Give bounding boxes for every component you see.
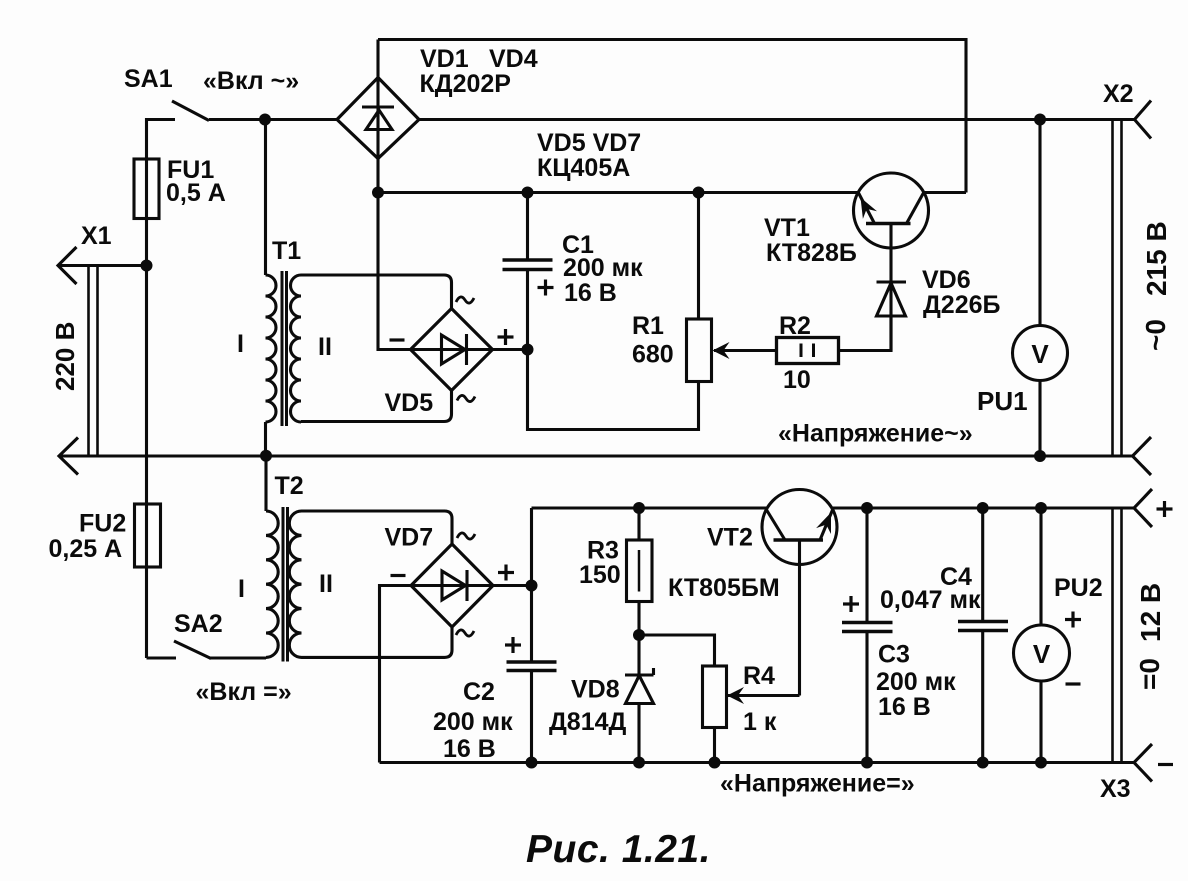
svg-text:X2: X2 <box>1103 80 1134 108</box>
svg-text:16 В: 16 В <box>878 693 931 721</box>
svg-text:0,047 мк: 0,047 мк <box>880 586 981 614</box>
svg-text:16 В: 16 В <box>443 735 496 763</box>
svg-text:C3: C3 <box>878 641 910 669</box>
svg-text:VD1: VD1 <box>420 45 469 73</box>
svg-text:V: V <box>1033 639 1051 669</box>
svg-text:200 мк: 200 мк <box>876 668 956 696</box>
svg-text:R4: R4 <box>743 662 775 690</box>
svg-text:«Вкл ~»: «Вкл ~» <box>203 67 299 95</box>
svg-text:10: 10 <box>783 366 811 394</box>
svg-text:=0: =0 <box>1134 658 1165 690</box>
svg-text:220 В: 220 В <box>50 322 80 391</box>
svg-text:R1: R1 <box>632 312 664 340</box>
svg-text:II: II <box>319 570 333 598</box>
svg-text:«Напряжение=»: «Напряжение=» <box>720 770 915 798</box>
svg-text:X1: X1 <box>81 222 112 250</box>
svg-text:FU2: FU2 <box>79 510 126 538</box>
svg-text:SA2: SA2 <box>174 610 223 638</box>
svg-text:КТ805БМ: КТ805БМ <box>668 574 780 602</box>
svg-text:C2: C2 <box>463 678 495 706</box>
svg-text:VT2: VT2 <box>707 524 753 552</box>
svg-text:16 В: 16 В <box>564 279 617 307</box>
svg-text:I: I <box>238 575 245 603</box>
svg-text:X3: X3 <box>1100 775 1131 803</box>
svg-text:«Напряжение~»: «Напряжение~» <box>778 420 973 448</box>
svg-text:VT1: VT1 <box>764 214 810 242</box>
svg-text:Д814Д: Д814Д <box>549 708 627 736</box>
svg-text:~0: ~0 <box>1140 319 1171 351</box>
svg-text:VD5: VD5 <box>385 389 434 417</box>
svg-text:0,25 А: 0,25 А <box>49 535 123 563</box>
svg-text:VD7: VD7 <box>385 524 434 552</box>
svg-text:КЦ405А: КЦ405А <box>537 154 630 182</box>
svg-text:150: 150 <box>579 561 621 589</box>
svg-text:VD4: VD4 <box>489 45 538 73</box>
svg-text:«Вкл =»: «Вкл =» <box>196 678 292 706</box>
svg-text:Д226Б: Д226Б <box>923 291 1001 319</box>
svg-text:680: 680 <box>632 341 674 369</box>
svg-text:SA1: SA1 <box>124 65 173 93</box>
svg-text:215 В: 215 В <box>1141 221 1172 296</box>
svg-text:Рис. 1.21.: Рис. 1.21. <box>526 828 711 871</box>
svg-text:R2: R2 <box>779 312 811 340</box>
svg-text:II: II <box>318 333 332 361</box>
svg-text:КТ828Б: КТ828Б <box>766 239 857 267</box>
svg-text:200 мк: 200 мк <box>563 254 643 282</box>
svg-text:VD6: VD6 <box>922 266 971 294</box>
svg-text:КД202Р: КД202Р <box>420 70 511 98</box>
svg-text:12 В: 12 В <box>1135 583 1166 642</box>
svg-text:I: I <box>237 330 244 358</box>
svg-text:VD8: VD8 <box>571 676 620 704</box>
svg-text:200 мк: 200 мк <box>433 708 513 736</box>
svg-text:PU1: PU1 <box>977 386 1028 416</box>
svg-text:1 к: 1 к <box>743 708 777 736</box>
svg-text:T2: T2 <box>275 472 304 500</box>
svg-text:VD5 VD7: VD5 VD7 <box>537 129 641 157</box>
svg-text:PU2: PU2 <box>1054 574 1103 602</box>
svg-text:T1: T1 <box>272 237 301 265</box>
svg-text:V: V <box>1031 339 1049 369</box>
svg-text:0,5 А: 0,5 А <box>166 179 226 207</box>
